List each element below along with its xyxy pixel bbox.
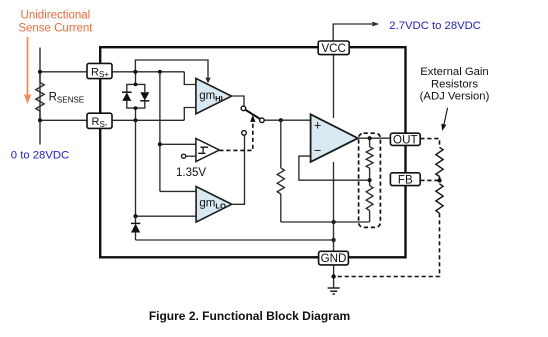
wire: switch common to op-amp + input	[264, 119, 310, 121]
diode D3 (to bottom rail)	[131, 216, 140, 240]
svg-text:Unidirectional: Unidirectional	[21, 10, 91, 22]
wire: RS- external lead	[40, 119, 87, 121]
ground symbol	[328, 288, 340, 294]
node: gmLO input / diode junction	[133, 214, 137, 218]
node: +input junction	[279, 118, 283, 122]
wire: gmLO output	[232, 135, 245, 204]
node: RS- rail / clamp junction	[133, 118, 137, 122]
svg-text:1.35V: 1.35V	[176, 167, 206, 179]
amp gmLO	[196, 187, 232, 223]
wire: GND pin to ground	[333, 265, 335, 288]
IC boundary box	[100, 47, 405, 257]
svg-text:VCC: VCC	[321, 42, 345, 55]
wire: VCC supply arrow	[333, 22, 379, 41]
wire: VCC/GND vertical (below op-amp)	[333, 162, 335, 251]
node: RS+ tap junction	[38, 70, 42, 74]
node: bottom-left rail / GND line junction	[332, 238, 336, 242]
pin OUT	[390, 133, 420, 146]
pin GND	[319, 251, 349, 265]
label pointer arrow	[441, 108, 447, 131]
switch S1	[241, 106, 264, 135]
svg-text:(ADJ Version): (ADJ Version)	[420, 90, 490, 102]
node: RS+ rail / bias junction	[133, 70, 137, 74]
wire: gmLO bottom input	[136, 215, 197, 217]
dashed wire: OUT to external resistor	[420, 139, 439, 148]
svg-text:GND: GND	[321, 252, 347, 265]
clamp diode D1 (cathode up)	[122, 92, 132, 101]
svg-text:2.7VDC to 28VDC: 2.7VDC to 28VDC	[389, 20, 481, 32]
node: RS- tap junction	[38, 118, 42, 122]
node: RS+ rail / comparator tap	[158, 70, 162, 74]
internal divider chain: resistor R1	[366, 138, 373, 168]
svg-text:0 to 28VDC: 0 to 28VDC	[11, 150, 69, 162]
svg-text:FB: FB	[398, 173, 413, 186]
svg-text:+: +	[314, 118, 321, 132]
clamp diode D2 (cathode down)	[140, 92, 149, 101]
sense current direction arrow	[24, 37, 31, 104]
label: External Gain Resistors (ADJ Version)	[420, 66, 490, 102]
resistor RSENSE	[36, 72, 84, 121]
dashed control: comparator output to switch	[219, 115, 255, 151]
wire: gmLO top input	[160, 190, 196, 192]
node: output / divider junction	[368, 136, 372, 140]
internal divider chain: resistor R2	[366, 168, 373, 222]
node: clamp bottom junction	[134, 106, 138, 110]
pin RS-	[87, 113, 112, 129]
resistor R3 (+input load)	[277, 120, 284, 222]
node: divider mid node	[368, 178, 372, 182]
dashed box: internal gain resistors	[359, 133, 381, 227]
wire: RS- internal rail	[112, 119, 184, 121]
wire: RS- down to gmLO	[135, 120, 137, 216]
wire: bottom mid rail	[281, 221, 370, 223]
label: Unidirectional Sense Current	[18, 10, 93, 35]
svg-text:Figure 2. Functional Block Dia: Figure 2. Functional Block Diagram	[149, 309, 350, 323]
dashed wire: FB to external junction	[420, 179, 439, 181]
wire: comparator input	[160, 143, 196, 145]
svg-text:OUT: OUT	[393, 133, 417, 146]
pin RS+	[87, 63, 112, 79]
node: comparator input junction	[158, 142, 162, 146]
node: ground junction	[331, 274, 335, 278]
pin VCC	[318, 41, 349, 55]
comparator U1 (Schmitt)	[196, 138, 219, 161]
svg-text:External Gain: External Gain	[420, 66, 488, 78]
wire: bias feed to gmHI top with arrow	[135, 60, 210, 83]
wire: op-amp output to OUT	[358, 137, 391, 139]
wire: gmHI bottom input jog	[184, 108, 196, 121]
op-amp A1	[311, 114, 358, 162]
wire: gmHI top input jog	[184, 72, 196, 85]
node: bottom rail / GND line junction	[332, 220, 336, 224]
svg-text:Sense Current: Sense Current	[18, 22, 93, 34]
wire: gmHI output	[232, 96, 245, 106]
svg-text:−: −	[314, 143, 321, 157]
dashed wire: RG1 to junction	[439, 177, 441, 184]
1.35V reference terminal	[176, 154, 206, 179]
external resistor RG1	[436, 147, 443, 176]
wire: feedback to divider mid node	[299, 156, 370, 180]
wire: RS+ external lead	[40, 71, 87, 73]
wire: bottom-left rail to GND line	[136, 239, 334, 241]
dashed wire: external return to ground	[334, 213, 440, 276]
node: clamp top junction	[134, 83, 138, 87]
svg-text:Resistors: Resistors	[431, 78, 478, 90]
node: external divider junction	[437, 178, 441, 182]
pin FB	[390, 173, 420, 187]
wire: RS+ internal rail	[112, 71, 184, 73]
clamp diode network frame	[127, 72, 145, 121]
wire: comparator/gmLO tap vertical	[159, 72, 161, 192]
external resistor RG2	[436, 184, 443, 213]
amp gmHI	[196, 78, 232, 113]
wire: VCC vertical (above op-amp)	[333, 55, 335, 118]
wire: left bus vertical	[39, 48, 41, 145]
